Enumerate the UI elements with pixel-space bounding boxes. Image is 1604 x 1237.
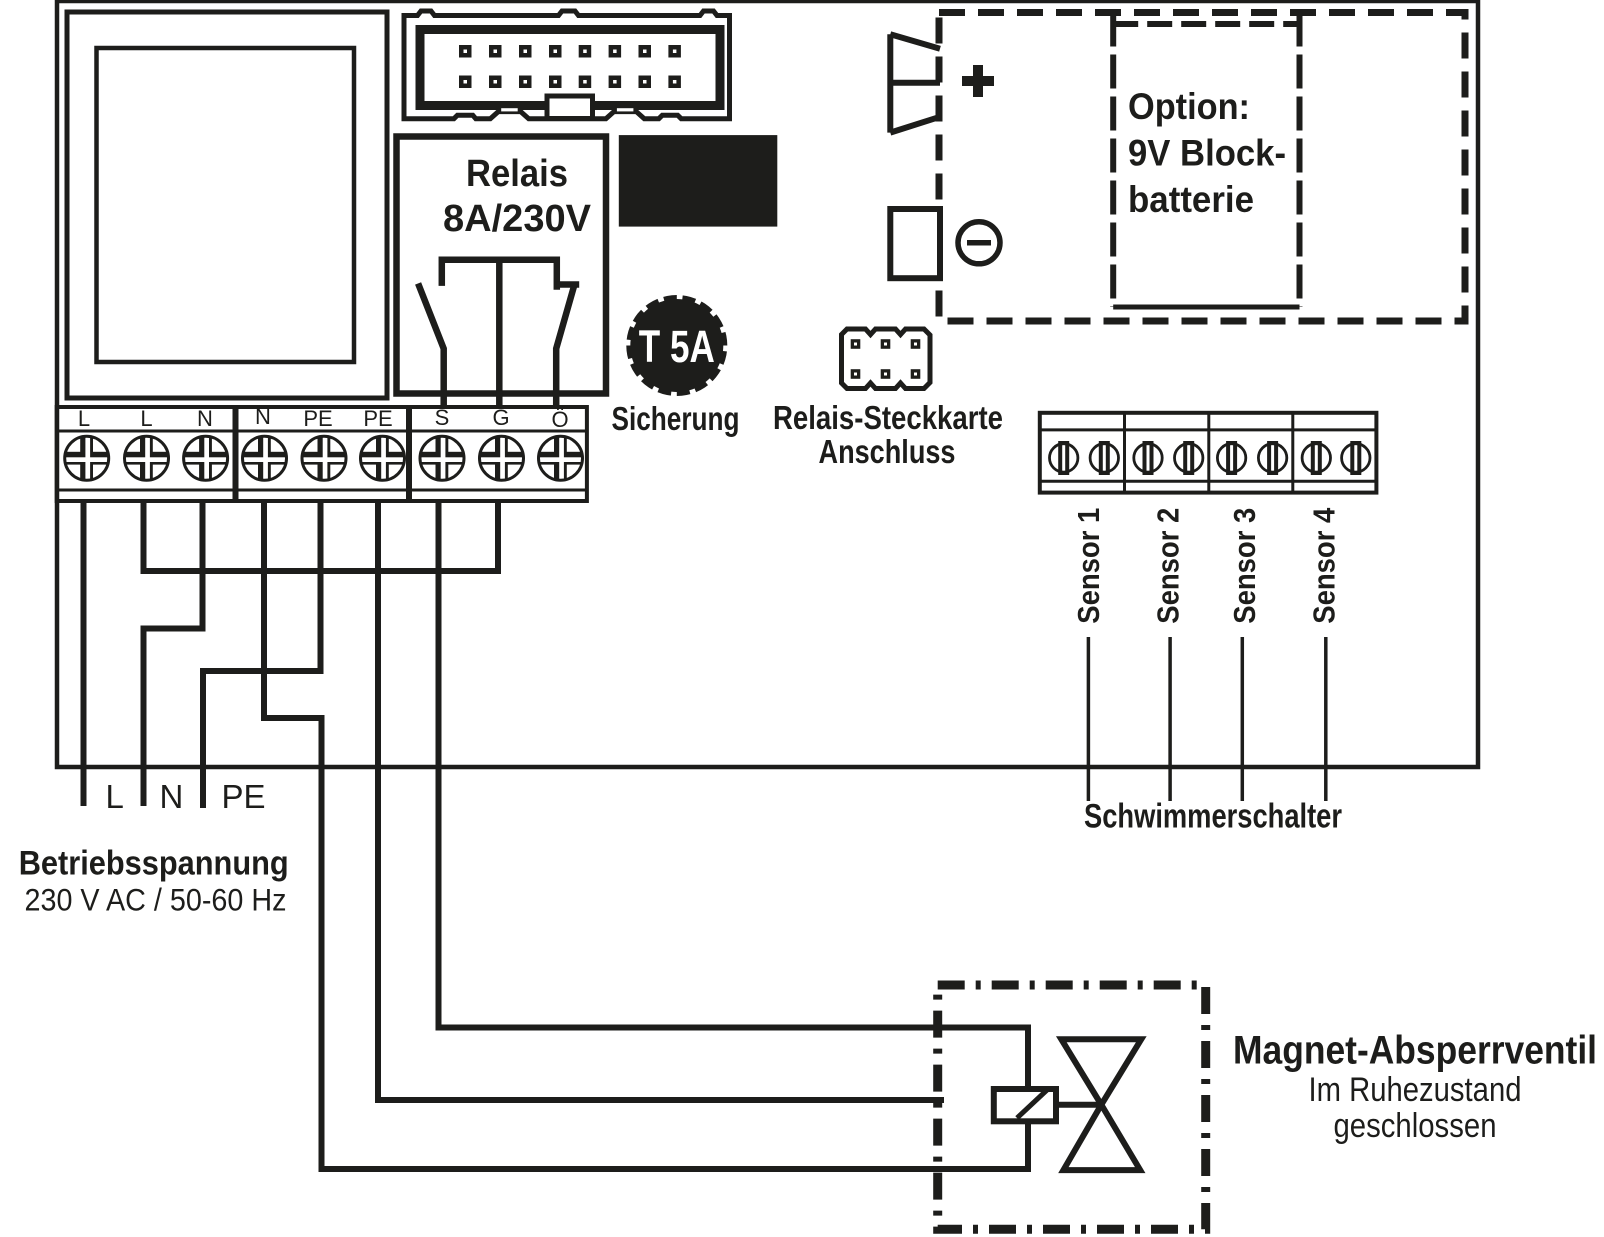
relay K1 box bbox=[397, 137, 607, 394]
terminal block X1 bottom rail bbox=[57, 489, 235, 492]
svg-text:Betriebsspannung: Betriebsspannung bbox=[19, 845, 289, 883]
IDC connector J1 pins row 1 bbox=[459, 45, 681, 58]
relay K1 common pole wire to G bbox=[496, 260, 503, 407]
IDC connector J1 pins row 2 bbox=[459, 76, 681, 89]
svg-text:Sicherung: Sicherung bbox=[612, 400, 740, 437]
sensor block bottom rail line bbox=[1040, 480, 1377, 483]
terminal block X3 body bbox=[410, 407, 587, 501]
svg-text:9V Block-: 9V Block- bbox=[1128, 133, 1286, 174]
svg-text:N: N bbox=[255, 404, 271, 429]
screw terminal PE6 bbox=[361, 436, 405, 480]
sensor block divider 3 bbox=[1291, 413, 1294, 493]
buzzer symbol bbox=[890, 34, 940, 132]
sensor screws bbox=[1050, 441, 1371, 475]
valve dash-dot enclosure bbox=[938, 985, 1206, 1229]
svg-text:G: G bbox=[492, 405, 509, 430]
IDC connector J1 pin holes row 1 bbox=[464, 50, 677, 54]
pin header J2 outline bbox=[842, 329, 931, 389]
terminal block X2 label divider bbox=[237, 430, 409, 433]
IDC connector J1 inner shroud bbox=[420, 30, 720, 106]
svg-text:PE: PE bbox=[363, 406, 392, 431]
terminal block X1 body bbox=[57, 407, 235, 501]
battery compartment dashed box bbox=[939, 13, 1465, 322]
terminal block X1 label divider bbox=[57, 430, 235, 433]
svg-text:Sensor 3: Sensor 3 bbox=[1227, 508, 1262, 624]
svg-text:Schwimmerschalter: Schwimmerschalter bbox=[1084, 798, 1342, 836]
svg-text:PE: PE bbox=[303, 406, 332, 431]
solenoid coil Y1 bbox=[994, 1089, 1056, 1121]
svg-text:Relais-Steckkarte: Relais-Steckkarte bbox=[773, 399, 1003, 436]
screw terminal PE5 bbox=[302, 436, 346, 480]
wire S to valve coil bbox=[439, 501, 1029, 1089]
sensor terminal block body bbox=[1040, 413, 1377, 493]
black module block bbox=[619, 135, 778, 227]
wire PE input to terminal PE5 bbox=[203, 501, 321, 808]
svg-text:L: L bbox=[78, 406, 90, 431]
sensor wire 4 bbox=[1324, 637, 1328, 801]
relay K1 NC contact cross tick bbox=[556, 281, 579, 288]
IDC connector J1 key notch bbox=[547, 96, 593, 119]
fuse F1 body bbox=[626, 295, 727, 396]
display module outer frame bbox=[67, 12, 387, 398]
wire PE6 to valve frame bbox=[378, 501, 944, 1100]
battery minus symbol bbox=[958, 222, 1000, 264]
svg-text:Ö: Ö bbox=[551, 407, 568, 432]
IDC connector J1 outline bbox=[404, 11, 730, 119]
wire N input to terminal N3 bbox=[144, 501, 203, 806]
svg-text:L: L bbox=[106, 778, 124, 815]
wire L input bbox=[81, 501, 87, 806]
svg-text:8A/230V: 8A/230V bbox=[443, 198, 592, 240]
fuse F1 notched rim bbox=[626, 295, 727, 396]
battery B1 top shoulder line bbox=[1113, 21, 1299, 27]
svg-text:T 5A: T 5A bbox=[639, 321, 715, 372]
screw terminal Oe bbox=[539, 436, 583, 480]
svg-text:L: L bbox=[140, 406, 152, 431]
screw terminal N4 bbox=[243, 436, 287, 480]
sensor block divider 2 bbox=[1207, 413, 1210, 493]
svg-text:N: N bbox=[197, 406, 213, 431]
IDC connector J1 bottom slot left bbox=[501, 108, 518, 111]
wire N4 to valve coil bbox=[264, 501, 1028, 1169]
valve body lower triangle bbox=[1063, 1105, 1140, 1170]
svg-text:PE: PE bbox=[222, 778, 266, 815]
sensor block divider 1 bbox=[1123, 413, 1126, 493]
battery holder lug bbox=[890, 209, 940, 278]
terminal block X2 bottom rail bbox=[237, 489, 409, 492]
sensor block top rail line bbox=[1040, 428, 1377, 431]
svg-text:N: N bbox=[160, 778, 184, 815]
sensor wire 3 bbox=[1241, 637, 1245, 801]
svg-text:230 V AC / 50-60 Hz: 230 V AC / 50-60 Hz bbox=[25, 881, 287, 917]
svg-text:Sensor 2: Sensor 2 bbox=[1151, 508, 1186, 624]
display module inner window bbox=[97, 48, 355, 362]
svg-text:batterie: batterie bbox=[1128, 179, 1254, 220]
svg-text:S: S bbox=[435, 405, 450, 430]
battery B1 left edge bbox=[1110, 13, 1116, 308]
battery B1 bottom line bbox=[1113, 305, 1299, 310]
board outline bbox=[57, 1, 1478, 767]
terminal block X3 label divider bbox=[410, 430, 587, 433]
pin header J2 pins bbox=[851, 339, 921, 379]
solenoid coil diagonal bbox=[1017, 1090, 1047, 1118]
terminal block X2 body bbox=[237, 407, 409, 501]
valve stem bbox=[1056, 1102, 1101, 1108]
battery plus symbol bbox=[962, 65, 994, 97]
valve body upper triangle bbox=[1061, 1039, 1141, 1105]
battery B1 right edge bbox=[1297, 13, 1303, 308]
relay K1 contact bracket bbox=[442, 260, 557, 290]
screw terminal G bbox=[480, 436, 524, 480]
IDC connector J1 bottom slot right bbox=[617, 108, 634, 111]
svg-text:Relais: Relais bbox=[466, 153, 568, 195]
svg-text:Sensor 4: Sensor 4 bbox=[1307, 507, 1342, 624]
svg-text:geschlossen: geschlossen bbox=[1334, 1107, 1497, 1145]
screw terminal L2 bbox=[125, 436, 169, 480]
svg-text:Sensor 1: Sensor 1 bbox=[1071, 508, 1106, 624]
IDC connector J1 pin holes row 2 bbox=[464, 80, 677, 84]
sensor wire 1 bbox=[1087, 637, 1091, 801]
screw terminal L1 bbox=[65, 436, 109, 480]
svg-text:Option:: Option: bbox=[1128, 86, 1250, 127]
screw terminal N3 bbox=[184, 436, 228, 480]
screw terminal S bbox=[420, 436, 464, 480]
relay K1 NO blade to S bbox=[418, 283, 444, 407]
svg-text:Anschluss: Anschluss bbox=[819, 433, 956, 470]
svg-text:Im Ruhezustand: Im Ruhezustand bbox=[1309, 1071, 1522, 1109]
terminal block X3 bottom rail bbox=[410, 489, 587, 492]
wire L2 to relay common G bbox=[144, 501, 499, 571]
relay K1 NC blade to Oe bbox=[556, 286, 574, 407]
sensor wire 2 bbox=[1168, 637, 1172, 801]
svg-text:Magnet-Absperrventil: Magnet-Absperrventil bbox=[1233, 1029, 1597, 1073]
